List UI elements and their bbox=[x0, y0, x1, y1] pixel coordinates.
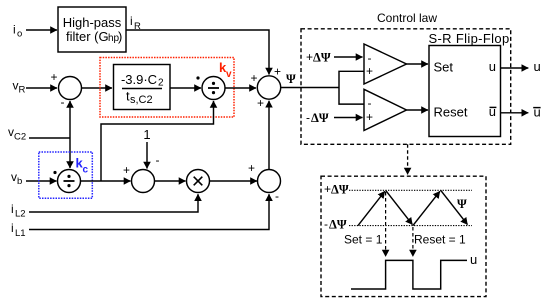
dashed line set bbox=[385, 192, 387, 257]
svg-text:High-pass: High-pass bbox=[63, 15, 122, 30]
multiplier bbox=[187, 170, 210, 193]
wire i_L1 to SC3 bbox=[29, 194, 269, 229]
wire branch to comparators bbox=[339, 71, 364, 104]
threshold line lower bbox=[349, 225, 472, 227]
dashed box control law bbox=[301, 29, 511, 145]
summing junction SC3 bbox=[258, 170, 281, 193]
svg-text:i: i bbox=[13, 23, 16, 37]
svg-text:S-R Flip-Flop: S-R Flip-Flop bbox=[428, 31, 509, 46]
svg-text:Reset = 1: Reset = 1 bbox=[414, 233, 466, 247]
svg-text:u: u bbox=[534, 59, 541, 74]
svg-text:1: 1 bbox=[143, 127, 150, 142]
wire kc output to SC2 bbox=[81, 180, 131, 182]
divider kc bbox=[58, 170, 81, 193]
svg-text:u: u bbox=[489, 104, 496, 119]
svg-text:s,C2: s,C2 bbox=[130, 94, 153, 106]
dot marker kc numerator bbox=[53, 171, 56, 174]
blue dashed box kc bbox=[39, 152, 93, 198]
triangle wave segment 1 bbox=[358, 191, 385, 225]
wire i_o to high-pass filter bbox=[26, 29, 57, 31]
svg-text:-: - bbox=[306, 111, 310, 125]
svg-text:L1: L1 bbox=[15, 228, 26, 239]
triangle wave segment 2 bbox=[386, 190, 413, 224]
svg-text:Set: Set bbox=[434, 60, 454, 75]
triangle wave segment 4 bbox=[441, 190, 468, 224]
svg-text:+: + bbox=[250, 71, 257, 85]
svg-text:i: i bbox=[11, 221, 14, 235]
wire v_C2 up to SC1 minus bbox=[69, 101, 71, 138]
wire divider kv to main summing junction bbox=[225, 87, 256, 89]
square wave u bbox=[351, 260, 467, 289]
wire u-bar output bbox=[501, 112, 529, 114]
wire v_R to summing junction SC1 bbox=[26, 87, 57, 89]
svg-text:filter (G: filter (G bbox=[66, 29, 109, 44]
dashed line reset bbox=[412, 227, 414, 257]
svg-text:Control law: Control law bbox=[377, 11, 437, 25]
svg-text:u: u bbox=[534, 105, 541, 120]
wire SC1 to fraction block bbox=[82, 87, 113, 89]
svg-text:L2: L2 bbox=[15, 209, 26, 220]
svg-text:2: 2 bbox=[158, 78, 164, 89]
wire fraction to divider kv bbox=[170, 87, 201, 89]
comparator top bbox=[364, 44, 407, 84]
svg-text:+: + bbox=[123, 163, 130, 177]
svg-text:+: + bbox=[366, 64, 373, 78]
svg-text:-: - bbox=[275, 189, 279, 203]
svg-text:-3.9·C: -3.9·C bbox=[121, 72, 157, 87]
summing junction SC1 bbox=[59, 77, 82, 100]
threshold line upper bbox=[349, 189, 472, 191]
svg-text:c: c bbox=[83, 165, 89, 176]
svg-text:-: - bbox=[156, 153, 160, 167]
svg-text:-: - bbox=[324, 217, 328, 231]
svg-text:-: - bbox=[61, 95, 65, 109]
block S-R flip-flop bbox=[429, 46, 501, 137]
wire multiplier to SC3 bbox=[210, 180, 258, 182]
wire i_R to summing junction bbox=[126, 30, 269, 75]
comparator bottom bbox=[364, 89, 407, 130]
wire -delta psi arrow bbox=[334, 117, 363, 119]
svg-text:Set = 1: Set = 1 bbox=[344, 233, 383, 247]
svg-text:b: b bbox=[17, 176, 22, 187]
red dashed box kv bbox=[100, 58, 234, 118]
svg-text:i: i bbox=[11, 202, 14, 216]
svg-text:ΔΨ: ΔΨ bbox=[311, 111, 329, 125]
svg-text:o: o bbox=[17, 29, 22, 40]
svg-text:-: - bbox=[368, 51, 372, 65]
dashed connector control law to waveform bbox=[407, 144, 409, 174]
summing junction SC2 bbox=[132, 170, 155, 193]
svg-text:+: + bbox=[366, 110, 373, 124]
wire 1 to SC2 bbox=[146, 142, 148, 169]
svg-text:+: + bbox=[50, 70, 57, 84]
wire +delta psi arrow bbox=[334, 56, 363, 58]
dot marker kv numerator bbox=[196, 76, 199, 79]
dashed box waveform bbox=[321, 176, 486, 296]
wire i_L2 to multiplier bbox=[29, 194, 198, 212]
triangle wave segment 3 bbox=[413, 191, 440, 225]
block high-pass filter bbox=[58, 7, 126, 52]
svg-text:-: - bbox=[368, 96, 372, 110]
wire SC2 to multiplier bbox=[155, 180, 186, 182]
summing junction main bbox=[257, 76, 280, 99]
wire v_C2 down to divider kc bbox=[69, 138, 71, 168]
svg-text:v: v bbox=[226, 69, 232, 80]
svg-text:R: R bbox=[19, 85, 26, 96]
wire v_C2 bbox=[29, 137, 70, 139]
wire set bbox=[407, 63, 429, 65]
svg-text:Reset: Reset bbox=[434, 105, 468, 120]
svg-text:C2: C2 bbox=[14, 132, 26, 143]
svg-text:+: + bbox=[274, 65, 281, 79]
block fraction -3.9*C2/ts,C2 bbox=[114, 65, 171, 110]
wire reset bbox=[407, 109, 429, 111]
svg-text:u: u bbox=[470, 252, 477, 267]
svg-text:ΔΨ: ΔΨ bbox=[313, 51, 331, 65]
svg-text:Ψ: Ψ bbox=[286, 72, 296, 86]
svg-text:ΔΨ: ΔΨ bbox=[329, 218, 347, 232]
wire v_b to divider kc bbox=[26, 180, 57, 182]
wire SC3 up to main summing junction bbox=[268, 101, 270, 170]
svg-text:+: + bbox=[306, 50, 313, 64]
wire kc branch up to kv denominator bbox=[101, 101, 214, 181]
svg-text:u: u bbox=[489, 59, 496, 74]
svg-text:+: + bbox=[248, 161, 255, 175]
svg-text:+: + bbox=[324, 182, 331, 196]
svg-text:i: i bbox=[130, 14, 133, 28]
svg-text:ΔΨ: ΔΨ bbox=[331, 183, 349, 197]
svg-text:Ψ: Ψ bbox=[457, 197, 467, 211]
divider kv bbox=[202, 77, 225, 100]
wire Psi output bbox=[281, 87, 339, 89]
svg-text:): ) bbox=[118, 29, 122, 44]
wire u output bbox=[501, 67, 529, 69]
